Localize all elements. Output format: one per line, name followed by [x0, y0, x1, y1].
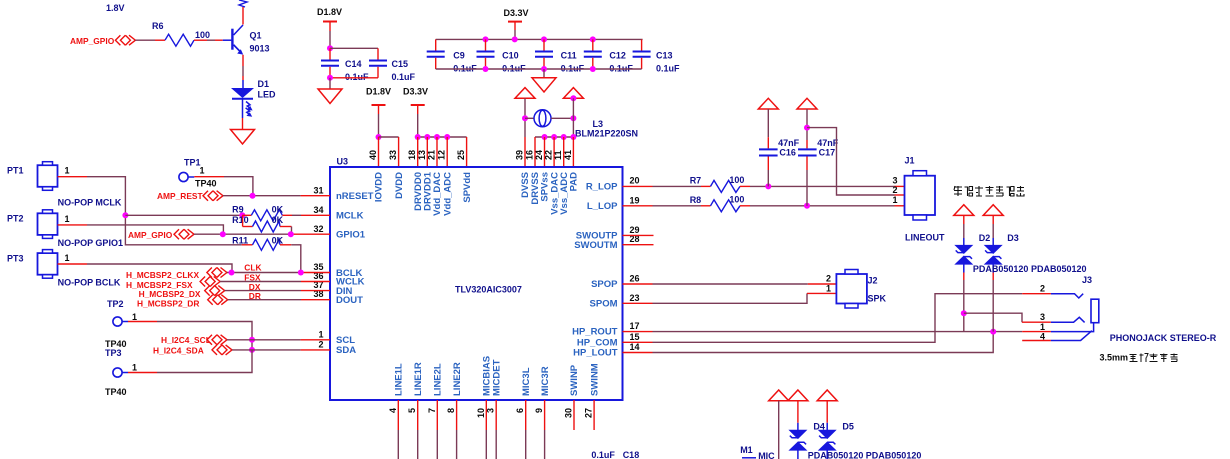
svg-text:nRESET: nRESET: [336, 191, 374, 202]
wire: [194, 177, 253, 196]
node: [376, 134, 382, 140]
pin number 4: [388, 408, 398, 413]
pin number 24: [534, 150, 544, 160]
capacitor C15: [369, 59, 416, 82]
wire: [194, 39, 231, 41]
pin name DRVSS: [530, 172, 541, 205]
pin name HP_COM: [577, 338, 618, 349]
pin number 36: [313, 271, 323, 281]
svg-text:LINE1L: LINE1L: [394, 363, 405, 396]
svg-text:0.1uF: 0.1uF: [392, 72, 416, 82]
pin 39: [524, 137, 526, 167]
svg-text:0K: 0K: [272, 215, 284, 225]
svg-text:IOVDD: IOVDD: [374, 172, 385, 202]
pin number 19: [630, 195, 640, 205]
pin 10 wire: [485, 400, 487, 459]
wire MCLK line: [125, 214, 242, 216]
svg-text:TLV320AIC3007: TLV320AIC3007: [455, 285, 522, 295]
wire: [330, 77, 378, 79]
connector PT2: [7, 210, 123, 248]
pin 3 wire: [495, 400, 497, 459]
svg-text:31: 31: [313, 186, 323, 196]
wire R_LOP: [623, 185, 711, 187]
pin name SCL: [336, 335, 355, 346]
wire: [330, 48, 378, 59]
svg-text:MICDET: MICDET: [491, 359, 502, 396]
pin name nRESET: [336, 191, 374, 202]
pin 1 of PT1: [58, 176, 87, 178]
svg-text:1: 1: [1040, 322, 1045, 332]
node: [990, 329, 996, 335]
svg-text:TP3: TP3: [105, 348, 122, 358]
pin number 21: [427, 150, 437, 160]
svg-text:R8: R8: [690, 195, 702, 205]
svg-text:39: 39: [515, 150, 525, 160]
wire: [525, 117, 534, 119]
pin 18: [417, 137, 419, 167]
svg-text:0K: 0K: [272, 205, 284, 215]
svg-text:L_LOP: L_LOP: [587, 201, 618, 212]
wire: [242, 55, 244, 88]
pin number 26: [630, 274, 640, 284]
op-amp U1 (IC U3 body): [330, 157, 623, 401]
node: [765, 183, 771, 189]
connector PT1: [7, 162, 122, 208]
svg-text:16: 16: [525, 150, 535, 160]
svg-text:PT2: PT2: [7, 214, 24, 224]
svg-text:TP40: TP40: [195, 179, 217, 189]
svg-text:7: 7: [427, 408, 437, 413]
wire to pin 34: [292, 214, 330, 216]
label PDAB050120: [808, 451, 864, 459]
pin number 12: [437, 150, 447, 160]
pin number 14: [630, 342, 640, 352]
wire: [291, 245, 301, 273]
svg-text:12: 12: [437, 150, 447, 160]
svg-text:19: 19: [630, 195, 640, 205]
node: [551, 134, 557, 140]
svg-text:0K: 0K: [272, 235, 284, 245]
ground: [532, 78, 556, 92]
power arrow: [769, 390, 789, 401]
pin name MICBIAS: [482, 356, 493, 396]
pin 24: [544, 137, 546, 167]
pin number 15: [630, 332, 640, 342]
svg-text:SPK: SPK: [868, 294, 887, 304]
pin number 7: [427, 408, 437, 413]
node: [249, 337, 255, 343]
svg-text:C13: C13: [656, 51, 673, 61]
svg-text:D1.8V: D1.8V: [366, 87, 391, 97]
svg-text:AMP_GPIO: AMP_GPIO: [70, 36, 115, 46]
svg-text:TP1: TP1: [184, 158, 201, 168]
pin name HP_ROUT: [572, 327, 618, 338]
svg-text:R_LOP: R_LOP: [586, 181, 618, 192]
connector J3 phonojack: [1022, 275, 1217, 343]
pin name MCLK: [336, 211, 364, 222]
svg-text:U3: U3: [337, 157, 349, 167]
capacitor C13: [633, 39, 680, 73]
svg-text:PT1: PT1: [7, 166, 24, 176]
pin number 37: [313, 280, 323, 290]
svg-text:17: 17: [630, 321, 640, 331]
net port AMP_GPIO: [128, 229, 194, 240]
wire: [128, 350, 252, 373]
wire: [572, 98, 574, 137]
pin 5 wire: [417, 400, 419, 459]
pin number 38: [313, 289, 323, 299]
pin number 9: [534, 408, 544, 413]
svg-text:1: 1: [65, 253, 70, 263]
svg-text:4: 4: [388, 408, 398, 413]
diode D5 (TVS): [818, 401, 854, 459]
wire MIC: [778, 401, 780, 459]
svg-text:D3.3V: D3.3V: [504, 8, 529, 18]
svg-text:C16: C16: [779, 147, 796, 157]
pin name SPOP: [591, 279, 618, 290]
node: [483, 66, 489, 72]
wire BCLK line: [227, 263, 330, 273]
svg-text:DR: DR: [249, 291, 261, 301]
pin 9 wire: [544, 400, 546, 459]
microphone M1: [740, 445, 775, 459]
svg-text:PDAB050120: PDAB050120: [973, 264, 1029, 274]
capacitor C12: [584, 39, 634, 73]
power arrow: [515, 88, 535, 99]
label PDAB050120: [1031, 264, 1087, 274]
pin number 2: [318, 339, 323, 349]
pin number 33: [388, 150, 398, 160]
resistor R11: [232, 235, 291, 250]
power arrow: [797, 98, 817, 109]
pin number 17: [630, 321, 640, 331]
wire: [135, 39, 165, 41]
capacitor C9: [427, 39, 478, 73]
svg-text:1: 1: [318, 329, 323, 339]
node: [327, 75, 333, 81]
node: [561, 134, 567, 140]
svg-text:J1: J1: [905, 156, 915, 166]
svg-text:J3: J3: [1082, 275, 1092, 285]
svg-text:NO-POP BCLK: NO-POP BCLK: [58, 278, 121, 288]
svg-text:22: 22: [544, 150, 554, 160]
pin number 5: [407, 408, 417, 413]
pin number 22: [544, 150, 554, 160]
svg-text:1: 1: [826, 283, 831, 293]
node: [250, 193, 256, 199]
power arrow: [788, 390, 808, 401]
svg-text:9: 9: [534, 408, 544, 413]
pin number 31: [313, 186, 323, 196]
svg-text:SDA: SDA: [336, 345, 356, 356]
resistor R1 (R6): [152, 21, 210, 46]
diode D4 (TVS): [788, 401, 825, 459]
svg-text:J2: J2: [868, 276, 878, 286]
capacitor C10: [477, 39, 527, 73]
svg-text:100: 100: [729, 175, 744, 185]
wire: [514, 30, 516, 39]
pin 8 wire: [456, 400, 458, 459]
svg-text:LINE2R: LINE2R: [452, 362, 463, 396]
svg-text:R11: R11: [232, 235, 248, 245]
pin number 39: [515, 150, 525, 160]
pin name IOVDD: [374, 172, 385, 202]
resistor R10: [232, 215, 291, 234]
net port H_MCBSP2_FSX: [126, 277, 220, 290]
svg-text:1.8V: 1.8V: [106, 3, 125, 13]
pin name Vss_PAD: [569, 172, 580, 191]
diode D2 (TVS): [954, 215, 990, 331]
svg-text:LED: LED: [258, 90, 277, 100]
svg-text:24: 24: [534, 150, 544, 160]
connector J1: [892, 156, 945, 243]
wire: [379, 136, 399, 138]
pin name SWOUTM: [574, 240, 617, 251]
wire: [551, 117, 573, 119]
capacitor C18 label: [591, 450, 639, 459]
wire rail: [418, 136, 467, 138]
pin number 29: [630, 225, 640, 235]
pin name MICDET: [491, 359, 502, 396]
svg-text:C18: C18: [623, 450, 640, 459]
svg-text:11: 11: [553, 150, 563, 160]
pin name LINE1R: [413, 362, 424, 396]
node: [249, 347, 255, 353]
wire SCL line: [227, 339, 330, 341]
power D3.3V: [504, 8, 529, 30]
node: [239, 212, 245, 218]
net port H_I2C4_SDA: [153, 345, 232, 356]
pin 22: [553, 137, 555, 167]
svg-text:40: 40: [368, 150, 378, 160]
svg-text:AMP_GPIO: AMP_GPIO: [128, 230, 173, 240]
svg-text:3: 3: [892, 175, 897, 185]
svg-text:3: 3: [486, 408, 496, 413]
wire: [128, 322, 252, 350]
pin 41: [572, 137, 574, 167]
pin name WCLK: [336, 277, 365, 288]
wire: [87, 264, 232, 273]
svg-text:SPOM: SPOM: [590, 299, 618, 310]
node: [434, 134, 440, 140]
svg-text:HP_LOUT: HP_LOUT: [573, 348, 618, 359]
wire: [87, 177, 242, 245]
svg-text:9013: 9013: [250, 44, 270, 54]
svg-text:2: 2: [826, 273, 831, 283]
node: [570, 134, 576, 140]
pin 1 of PT3: [58, 263, 87, 265]
pin name DOUT: [336, 295, 363, 306]
pin 16: [534, 137, 536, 167]
ground: [318, 89, 342, 104]
node: [122, 212, 128, 218]
pin 7 wire: [436, 400, 438, 459]
pin number 8: [446, 408, 456, 413]
svg-text:2: 2: [1040, 284, 1045, 294]
node: [522, 115, 528, 121]
resistor (partial, cut off at top edge): [239, 0, 247, 25]
svg-text:SPVdd: SPVdd: [462, 172, 473, 203]
svg-text:26: 26: [630, 274, 640, 284]
wire: [242, 99, 244, 130]
svg-text:GPIO1: GPIO1: [336, 230, 366, 241]
pin number 27: [584, 408, 594, 418]
pin name SWOUTP: [576, 231, 618, 242]
svg-text:TP2: TP2: [107, 299, 124, 309]
svg-text:C9: C9: [453, 51, 465, 61]
svg-text:L3: L3: [593, 119, 604, 129]
svg-text:10: 10: [476, 408, 486, 418]
pin name GPIO1: [336, 230, 366, 241]
pin name DVSS: [520, 172, 531, 198]
pin number 35: [313, 262, 323, 272]
wire: [329, 78, 331, 89]
svg-text:M1: M1: [740, 445, 753, 455]
pin 40: [378, 137, 380, 167]
wire SDA line: [232, 349, 330, 351]
node: [288, 231, 294, 237]
svg-text:20: 20: [630, 176, 640, 186]
capacitor C17: [798, 109, 839, 206]
svg-text:3: 3: [1040, 312, 1045, 322]
node: [483, 36, 489, 42]
svg-text:C10: C10: [502, 51, 519, 61]
power arrow: [758, 98, 778, 109]
svg-text:23: 23: [630, 293, 640, 303]
svg-text:25: 25: [456, 150, 466, 160]
node: [590, 36, 596, 42]
svg-text:H_MCBSP2_CLKX: H_MCBSP2_CLKX: [126, 270, 199, 280]
wire L_LOP: [623, 205, 711, 207]
pin 13: [426, 137, 428, 167]
pin number 34: [313, 205, 323, 215]
pin name SPOM: [590, 299, 618, 310]
svg-text:32: 32: [313, 224, 323, 234]
svg-text:R10: R10: [232, 215, 249, 225]
pin number 40: [368, 150, 378, 160]
pin name L_LOP: [587, 201, 618, 212]
node: [541, 66, 547, 72]
svg-text:1: 1: [132, 362, 137, 372]
wire GPIO1 line: [194, 233, 330, 235]
pin number 11: [553, 150, 563, 160]
svg-text:H_MCBSP2_DR: H_MCBSP2_DR: [137, 298, 199, 308]
svg-text:C15: C15: [392, 59, 409, 69]
pin number 18: [407, 150, 417, 160]
resistor R8: [690, 195, 745, 212]
node: [220, 231, 226, 237]
pin name Vdd_ADC: [442, 172, 453, 216]
pin number 23: [630, 293, 640, 303]
svg-text:100: 100: [729, 195, 744, 205]
node: [570, 95, 576, 101]
label PDAB050120: [973, 264, 1029, 274]
pin 29 stub: [623, 234, 654, 236]
inductor L3 (ferrite bead): [534, 110, 638, 139]
svg-text:PT3: PT3: [7, 254, 24, 264]
svg-text:3.5mm: 3.5mm: [1100, 353, 1129, 363]
pin name MIC3L: [521, 367, 532, 396]
svg-text:MCLK: MCLK: [336, 211, 364, 222]
pin name DIN: [336, 286, 353, 297]
power label 1.8V: [106, 3, 125, 13]
pin name BCLK: [336, 268, 363, 279]
svg-text:MIC: MIC: [758, 451, 775, 459]
svg-text:D3.3V: D3.3V: [403, 87, 428, 97]
svg-text:13: 13: [417, 150, 427, 160]
wire: [378, 114, 380, 137]
svg-text:SWINP: SWINP: [569, 364, 580, 396]
svg-text:1: 1: [65, 166, 70, 176]
pin 21: [436, 137, 438, 167]
svg-text:PDAB050120: PDAB050120: [1031, 264, 1087, 274]
svg-text:1: 1: [892, 195, 897, 205]
svg-text:MIC3R: MIC3R: [540, 366, 551, 396]
svg-text:D1: D1: [258, 79, 270, 89]
svg-text:AMP_REST: AMP_REST: [157, 191, 203, 201]
wire nRESET: [223, 195, 330, 197]
pin number 41: [563, 150, 573, 160]
svg-text:NO-POP MCLK: NO-POP MCLK: [58, 198, 122, 208]
net port AMP_GPIO (top): [70, 35, 135, 46]
wire SPOM: [623, 293, 837, 303]
wire: [543, 69, 545, 78]
capacitor C14: [321, 48, 369, 82]
pin 27 stub: [593, 400, 595, 430]
node: [541, 36, 547, 42]
pin name LINE2L: [433, 363, 444, 396]
svg-text:CLK: CLK: [244, 263, 261, 273]
node: [229, 270, 235, 276]
svg-text:PHONOJACK STEREO-R: PHONOJACK STEREO-R: [1110, 333, 1217, 343]
node: [415, 134, 421, 140]
wire HP_ROUT to J3 pin1: [623, 331, 1051, 333]
svg-text:LINEOUT: LINEOUT: [905, 233, 945, 243]
pin number 25: [456, 150, 466, 160]
pin name LINE2R: [452, 362, 463, 396]
svg-text:TP40: TP40: [105, 387, 127, 397]
svg-text:MIC3L: MIC3L: [521, 367, 532, 396]
svg-text:1: 1: [200, 166, 205, 176]
svg-text:DOUT: DOUT: [336, 295, 363, 306]
pin number 3: [486, 408, 496, 413]
svg-text:R6: R6: [152, 21, 164, 31]
pin 25: [466, 137, 468, 167]
power D3.3V: [403, 87, 428, 115]
power arrow: [983, 205, 1003, 216]
pin name HP_LOUT: [573, 348, 618, 359]
pin 1 of PT2: [58, 224, 87, 226]
wire rail: [535, 136, 573, 138]
chinese label 3.5mm headphone stereo: [1100, 353, 1129, 363]
svg-text:D1.8V: D1.8V: [317, 7, 342, 17]
pin number 16: [525, 150, 535, 160]
wire bottom rail: [436, 68, 642, 70]
svg-text:R7: R7: [690, 176, 702, 186]
pin 12: [446, 137, 448, 167]
svg-text:C14: C14: [345, 59, 362, 69]
node: [298, 270, 304, 276]
pin 33: [398, 137, 400, 167]
pin number 32: [313, 224, 323, 234]
test point TP1: [179, 158, 217, 189]
pin 6 wire: [525, 400, 527, 459]
svg-text:2: 2: [892, 185, 897, 195]
pin name Vdd_DAC: [432, 172, 443, 216]
svg-text:0.1uF: 0.1uF: [345, 72, 369, 82]
node: [804, 125, 810, 131]
svg-text:C17: C17: [819, 147, 836, 157]
